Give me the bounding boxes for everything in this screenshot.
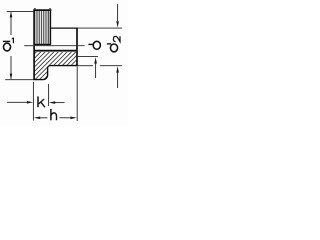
arrowheads — [10, 11, 119, 119]
d2 top stem — [117, 4, 119, 21]
hub bottom edge + fillet + disc lower right face + corner + disc bottom edge — [34, 66, 78, 80]
hub top edge — [50, 27, 77, 29]
d2 bottom extension line (two parts, gap at d stem) — [78, 65, 93, 67]
label k — [38, 96, 45, 107]
label d2 (rotated d with subscript 2) — [107, 36, 120, 52]
dimension lines — [5, 4, 122, 121]
section hatch body of nut — [34, 52, 77, 80]
h line right part — [60, 117, 72, 119]
k arrow pointing right — [27, 101, 33, 104]
hub right face — [76, 28, 78, 66]
knurl bottom edge — [34, 44, 51, 46]
d2 top extension line — [78, 27, 122, 29]
k left arrow tail — [7, 101, 28, 103]
centerline — [24, 45, 84, 47]
label d1 (rotated d with subscript 1) — [3, 38, 14, 51]
d arrow up — [94, 57, 97, 64]
d stem — [95, 64, 97, 79]
disc right face — [49, 10, 51, 45]
thread bore line — [34, 50, 77, 52]
d bottom extension line — [78, 56, 98, 58]
h arrow pointing right — [70, 117, 77, 120]
top corner ears — [34, 8, 35, 10]
h line left part — [40, 117, 48, 119]
d1 arrow down (bottom) — [10, 74, 13, 80]
k arrow pointing left — [49, 101, 55, 104]
label h — [51, 109, 57, 120]
h right extension line — [76, 67, 78, 122]
disc top edge — [33, 9, 51, 11]
d2 arrow up at bottom ext — [116, 66, 119, 73]
k left extension line (shared with h) — [32, 82, 34, 121]
k right extension line — [48, 84, 50, 106]
d1 bottom extension line — [5, 79, 33, 81]
d1 arrow up (top) — [10, 11, 13, 17]
h arrow pointing left — [34, 117, 41, 120]
k right arrow tail — [55, 102, 65, 104]
d1 dimension stem upper — [10, 12, 12, 35]
d1 top extension line — [7, 10, 34, 12]
d1 dimension stem lower — [10, 56, 12, 79]
d2 arrow down at top ext — [116, 21, 119, 27]
d2 bottom stem — [117, 73, 119, 89]
part outline — [33, 9, 77, 80]
knurl texture lines — [36, 11, 49, 44]
disc left face — [33, 9, 35, 79]
label d (rotated d) — [88, 41, 100, 49]
